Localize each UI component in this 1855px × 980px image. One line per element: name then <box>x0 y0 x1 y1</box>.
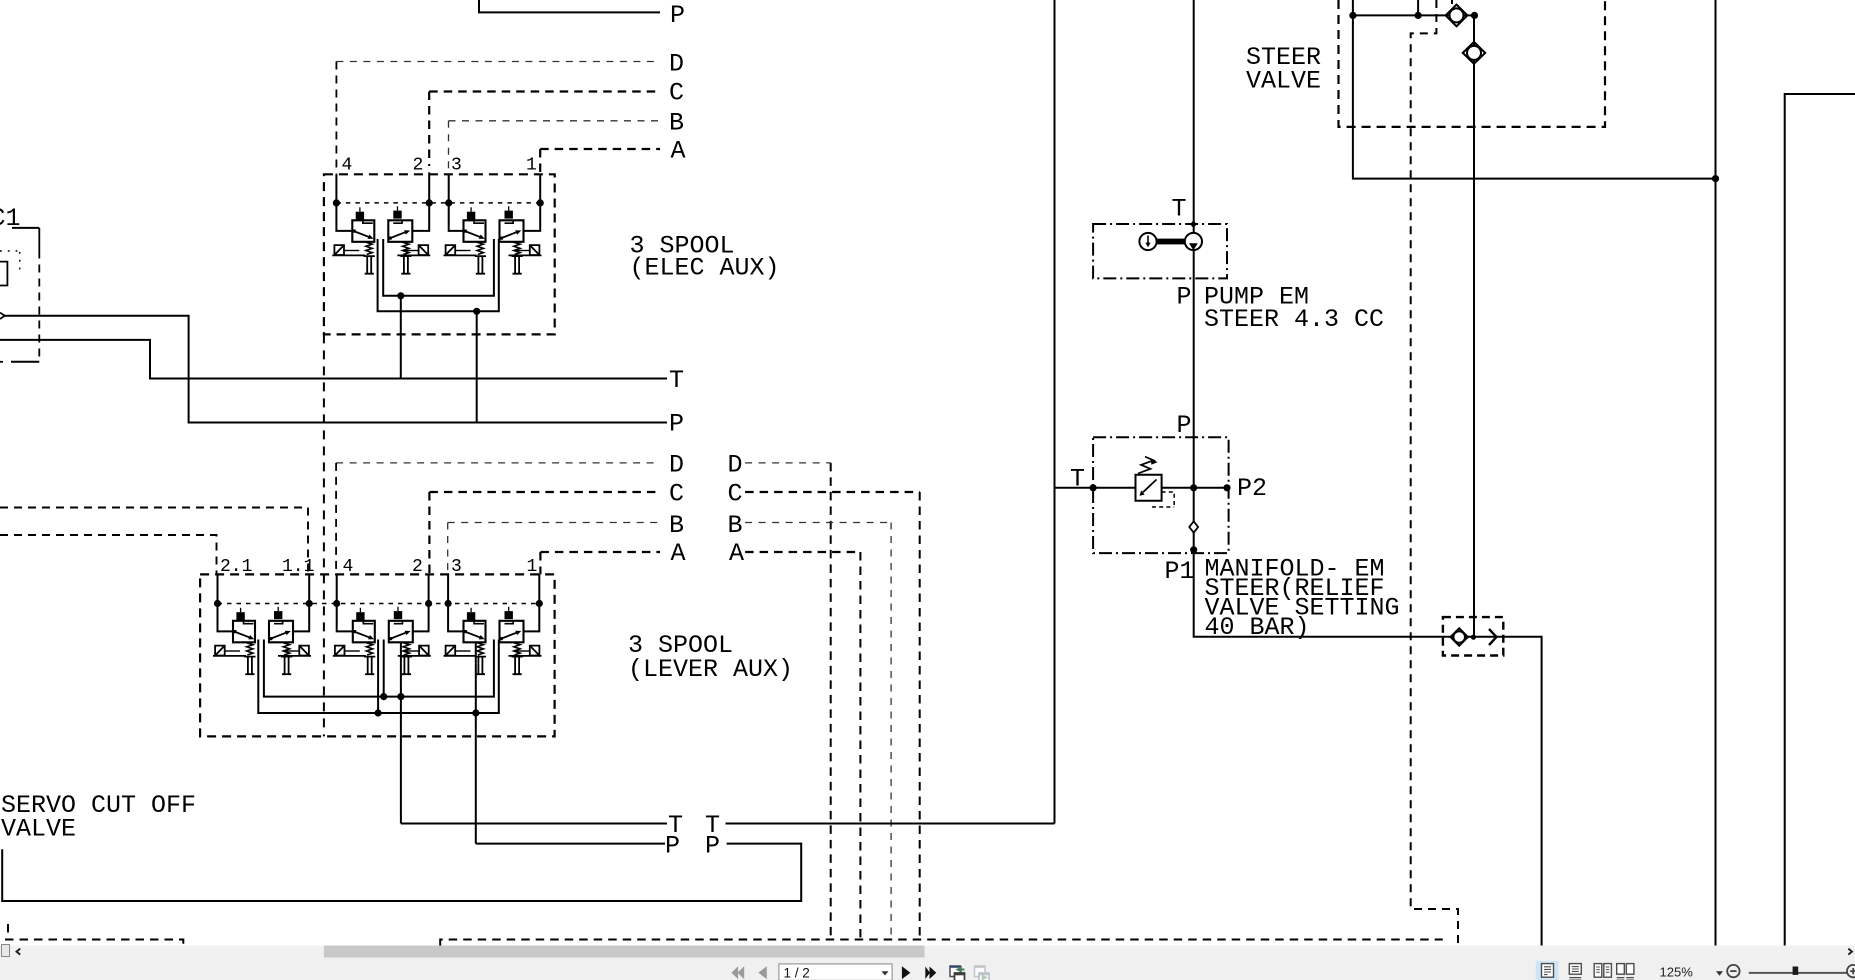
svg-text:1: 1 <box>526 156 537 176</box>
svg-text:P1: P1 <box>1165 557 1195 586</box>
svg-text:C: C <box>728 480 743 509</box>
svg-text:D: D <box>669 50 684 79</box>
svg-text:4: 4 <box>342 156 353 176</box>
svg-text:1: 1 <box>527 557 538 577</box>
svg-text:1 / 2: 1 / 2 <box>784 966 810 980</box>
svg-text:A: A <box>729 539 744 568</box>
svg-text:4: 4 <box>343 557 354 577</box>
svg-text:40 BAR): 40 BAR) <box>1205 613 1310 642</box>
svg-text:(LEVER AUX): (LEVER AUX) <box>628 655 793 684</box>
svg-text:T: T <box>1172 195 1187 224</box>
svg-text:P: P <box>1177 411 1192 440</box>
svg-text:T: T <box>669 366 684 395</box>
svg-text:C: C <box>669 79 684 108</box>
svg-text:B: B <box>669 511 684 540</box>
svg-text:D: D <box>669 451 684 480</box>
svg-text:1.1: 1.1 <box>282 557 314 577</box>
svg-text:D: D <box>728 451 743 480</box>
svg-text:B: B <box>669 109 684 138</box>
svg-text:STEER 4.3 CC: STEER 4.3 CC <box>1204 305 1384 334</box>
svg-text:A: A <box>671 137 686 166</box>
svg-text:(ELEC AUX): (ELEC AUX) <box>630 254 780 283</box>
svg-text:3: 3 <box>451 156 462 176</box>
svg-text:125%: 125% <box>1660 964 1694 979</box>
svg-text:P2: P2 <box>1237 474 1267 503</box>
svg-text:VALVE: VALVE <box>1 815 76 844</box>
svg-text:2.1: 2.1 <box>220 557 252 577</box>
svg-text:C: C <box>669 480 684 509</box>
svg-text:VALVE: VALVE <box>1246 67 1321 96</box>
svg-text:P: P <box>665 832 680 861</box>
svg-text:B: B <box>728 511 743 540</box>
svg-text:T: T <box>1070 465 1085 494</box>
svg-text:P: P <box>705 832 720 861</box>
svg-text:P: P <box>670 1 685 30</box>
svg-text:P: P <box>669 410 684 439</box>
svg-text:2: 2 <box>412 557 423 577</box>
svg-text:P: P <box>1177 283 1192 312</box>
svg-text:2: 2 <box>413 156 424 176</box>
svg-text:3: 3 <box>451 557 462 577</box>
svg-text:A: A <box>671 539 686 568</box>
